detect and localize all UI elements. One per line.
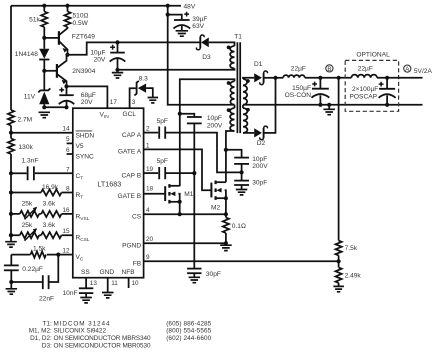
svg-text:2: 2 — [146, 126, 150, 133]
svg-text:M1, M2:: M1, M2: — [29, 328, 52, 335]
svg-text:M2: M2 — [211, 204, 220, 211]
svg-text:3: 3 — [132, 99, 136, 106]
wire M1 source to CS — [179, 202, 181, 214]
node M2 source CS — [224, 212, 228, 216]
ground 10nF — [80, 298, 92, 303]
node 10uF bottom — [115, 68, 119, 72]
potentiometer 25k (RVSL) — [11, 211, 41, 217]
node 0.22uF bottom — [9, 280, 13, 284]
pin stub NFB — [128, 278, 130, 288]
wire M2 source to CS — [225, 198, 227, 214]
svg-text:8.3: 8.3 — [139, 75, 148, 82]
capacitor C 10uF 20V — [110, 42, 126, 69]
wire B node to 7.5k — [338, 78, 340, 241]
svg-text:39µF: 39µF — [192, 16, 207, 23]
phase dot aux — [227, 46, 231, 50]
node FZT emitter/2N3904 collector — [65, 53, 69, 57]
svg-text:5pF: 5pF — [157, 118, 168, 125]
svg-text:FB: FB — [133, 261, 142, 268]
svg-text:ON SEMICONDUCTOR MBR0530: ON SEMICONDUCTOR MBR0530 — [54, 342, 151, 349]
trimmer arrow — [25, 229, 37, 241]
wire 0.22uF bottom stub — [10, 282, 12, 289]
svg-text:D3:: D3: — [42, 342, 52, 349]
trimmer arrow — [25, 207, 37, 219]
pin stub SYNC — [67, 153, 73, 155]
wire GATE A to M2 gate — [144, 149, 212, 190]
phase dot primary B — [227, 81, 231, 85]
resistor R 0.1ohm — [223, 214, 229, 243]
phase dot primary C — [227, 108, 231, 112]
svg-text:GATE B: GATE B — [117, 193, 141, 200]
transistor Q FZT649 — [59, 27, 68, 55]
svg-text:9: 9 — [146, 254, 150, 261]
junction 68uF bottom — [64, 105, 68, 109]
svg-text:15: 15 — [62, 228, 70, 235]
node RVSL rail — [9, 212, 13, 216]
svg-text:M1: M1 — [184, 191, 193, 198]
svg-text:25k: 25k — [22, 222, 33, 229]
svg-text:3.6k: 3.6k — [43, 222, 56, 229]
ground 30pF a — [189, 277, 201, 282]
transistor M2 (MOSFET) — [211, 181, 228, 201]
svg-text:T1: T1 — [234, 34, 242, 41]
ground PGND — [220, 245, 232, 250]
svg-text:19: 19 — [146, 166, 154, 173]
op-amp U1 LT1683 box — [73, 108, 144, 278]
junction rail/51k — [42, 4, 46, 8]
wire primary C top lead — [234, 105, 236, 108]
resistor R 51k — [41, 6, 47, 38]
capacitor C 68uF 20V — [59, 86, 74, 107]
node RCSL rail — [9, 233, 13, 237]
ground 39uF — [176, 31, 189, 36]
wire output return — [243, 104, 423, 106]
node poscap top — [385, 76, 389, 80]
diode D 1N4148 — [39, 38, 49, 71]
wire CAP B pin19 — [144, 172, 159, 174]
svg-text:SILICONIX Si9422: SILICONIX Si9422 — [54, 328, 107, 335]
capacitor C 30pF (B-side) — [234, 172, 249, 189]
node M1 source CS — [178, 212, 182, 216]
pin name SHDN — [76, 131, 95, 140]
svg-text:16: 16 — [62, 207, 70, 214]
plus 68uF — [59, 88, 64, 93]
pin stub SS — [85, 278, 87, 289]
capacitor C 0.22uF — [4, 255, 19, 282]
phase dot secondary bottom — [246, 108, 250, 112]
svg-text:3.6k: 3.6k — [43, 201, 56, 208]
capacitor C 22nF — [11, 255, 58, 290]
svg-text:22nF: 22nF — [39, 296, 54, 303]
node 150uF bottom — [318, 103, 322, 107]
node capB junction — [192, 171, 196, 175]
diode D2 schottky — [254, 126, 267, 140]
capacitor C 39uF 63V — [168, 15, 190, 31]
svg-text:7: 7 — [66, 166, 70, 173]
pin stub GND — [107, 278, 109, 293]
resistor R 3.6k (RVSL) — [41, 211, 73, 217]
wire L1 to B node — [305, 77, 352, 79]
node capA junction — [240, 170, 244, 174]
svg-text:D1: D1 — [254, 61, 263, 68]
capacitor C 30pF (A-side bottom) — [187, 269, 201, 278]
svg-text:5V/2A: 5V/2A — [414, 68, 433, 75]
svg-text:30pF: 30pF — [252, 180, 267, 187]
node B circle — [326, 65, 333, 73]
svg-text:5pF: 5pF — [157, 158, 168, 165]
svg-text:CS: CS — [132, 213, 142, 220]
transformer T1 secondary bottom — [243, 108, 247, 133]
wire VIN to pin17 — [67, 86, 108, 108]
svg-text:10pF: 10pF — [252, 156, 267, 163]
svg-text:2×100µF: 2×100µF — [352, 86, 378, 93]
svg-text:OS-CON: OS-CON — [285, 92, 312, 99]
wire zener to 68uF bottom — [44, 106, 66, 108]
junction rail/510 — [65, 4, 69, 8]
plus 10uF — [110, 45, 115, 50]
resistor R 2.7M — [8, 110, 14, 133]
capacitor C 5pF (B) — [159, 167, 165, 179]
svg-text:20V: 20V — [94, 57, 106, 64]
svg-text:510Ω: 510Ω — [73, 13, 89, 20]
resistor R 510ohm — [64, 6, 70, 28]
svg-text:8: 8 — [66, 186, 70, 193]
svg-text:GND: GND — [100, 269, 115, 276]
svg-text:SHDN: SHDN — [76, 133, 95, 140]
svg-text:CAP B: CAP B — [122, 172, 142, 179]
wire capB junction to 30pF — [193, 173, 195, 269]
wire FB — [144, 260, 339, 262]
resistor R 130k — [8, 133, 14, 174]
wire left rail — [10, 6, 12, 110]
svg-text:OPTIONAL: OPTIONAL — [356, 52, 390, 59]
wire GATE B to M1 gate — [144, 193, 166, 195]
node rectifier out — [273, 76, 277, 80]
transformer T1 core — [237, 42, 240, 133]
ground zener — [39, 112, 51, 117]
resistor R 2.49k — [336, 261, 342, 286]
ground 2.49k — [333, 286, 344, 291]
svg-text:30pF: 30pF — [206, 271, 221, 278]
node 2N3904 base — [42, 69, 46, 73]
svg-text:51k: 51k — [29, 16, 40, 23]
OPTIONAL dashed box — [345, 60, 398, 111]
ground 10uF — [112, 73, 123, 78]
svg-text:(605) 886-4285: (605) 886-4285 — [166, 320, 211, 327]
phase dot secondary top — [246, 79, 250, 83]
wire return ground stub — [328, 105, 330, 110]
wire GCL pin3 — [130, 88, 136, 108]
svg-text:D3: D3 — [202, 54, 211, 61]
plus 39uF — [184, 12, 189, 17]
wire top 48V rail — [11, 5, 181, 7]
svg-text:16.9k: 16.9k — [42, 184, 59, 191]
transformer T1 primary C — [230, 108, 234, 131]
transformer T1 secondary top — [243, 79, 247, 105]
svg-text:150µF: 150µF — [292, 85, 311, 92]
capacitor C 150uF OS-CON — [312, 78, 330, 105]
svg-text:D2: D2 — [257, 140, 266, 147]
svg-text:17: 17 — [110, 99, 118, 106]
svg-text:18: 18 — [146, 186, 154, 193]
svg-text:20V: 20V — [81, 99, 93, 106]
svg-text:13: 13 — [90, 280, 98, 287]
wire VC — [58, 254, 73, 256]
svg-text:GCL: GCL — [123, 111, 137, 118]
svg-text:22µF: 22µF — [291, 66, 306, 73]
inductor L 22uF (1) — [283, 75, 305, 78]
node zener anode — [42, 105, 46, 109]
svg-text:MIDCOM 31244: MIDCOM 31244 — [54, 320, 110, 327]
plus 150uF — [312, 82, 317, 87]
svg-text:14: 14 — [62, 126, 70, 133]
wire PGND — [144, 242, 226, 244]
node SHDN divider — [9, 131, 13, 135]
svg-text:(602) 244-6600: (602) 244-6600 — [166, 335, 211, 342]
wire secondary center join — [242, 105, 244, 108]
transformer T1 primary B — [230, 81, 234, 104]
svg-text:GATE A: GATE A — [118, 149, 142, 156]
node 10uF top — [115, 40, 119, 44]
svg-text:(800) 554-5565: (800) 554-5565 — [166, 328, 211, 335]
svg-text:CAP A: CAP A — [122, 132, 142, 139]
node 0.1ohm bottom PGND — [224, 241, 228, 245]
node fb tap — [337, 76, 341, 80]
svg-text:PGND: PGND — [122, 242, 141, 249]
wire CAP B to junction — [165, 172, 194, 174]
resistor R 1.5k — [11, 252, 58, 258]
svg-text:20: 20 — [146, 236, 154, 243]
svg-text:25k: 25k — [22, 201, 33, 208]
ground left rail — [5, 242, 17, 247]
svg-text:0.1Ω: 0.1Ω — [232, 223, 246, 230]
svg-text:130k: 130k — [19, 144, 34, 151]
node FB divider — [337, 259, 341, 263]
node CT rail — [9, 171, 13, 175]
svg-text:63V: 63V — [192, 23, 204, 30]
svg-text:200V: 200V — [252, 163, 268, 170]
wire 48V feed to primary center — [168, 6, 235, 105]
wire M2 drain — [225, 150, 227, 182]
zener diode 8.3 — [134, 81, 152, 98]
zener diode 11V — [38, 71, 50, 108]
wire RT + resistor 16.9k — [11, 189, 73, 195]
node left rail bottom — [9, 233, 13, 237]
ground 8.3 zener — [148, 98, 159, 103]
node VC junction — [56, 253, 60, 257]
svg-text:LT1683: LT1683 — [97, 179, 121, 188]
svg-text:NFB: NFB — [122, 269, 136, 276]
transistor M1 (MOSFET) — [165, 184, 182, 204]
node 10pF1 tap — [178, 112, 182, 116]
wire secondary bottom to D2 — [243, 132, 254, 134]
svg-text:1N4148: 1N4148 — [15, 51, 38, 58]
svg-text:D1, D2:: D1, D2: — [30, 335, 52, 342]
svg-text:2.49k: 2.49k — [345, 273, 362, 280]
ground 30pF b — [236, 190, 248, 195]
svg-text:0.5W: 0.5W — [73, 20, 89, 27]
svg-text:12: 12 — [62, 248, 70, 255]
wire CS — [144, 213, 226, 215]
svg-text:48V: 48V — [184, 3, 196, 10]
svg-text:FZT649: FZT649 — [72, 33, 95, 40]
svg-text:ON SEMICONDUCTOR MBRS340: ON SEMICONDUCTOR MBRS340 — [54, 335, 151, 342]
svg-text:T1:: T1: — [43, 320, 52, 327]
svg-text:4: 4 — [146, 207, 150, 214]
capacitor C 10pF 200V (A-side) — [180, 114, 202, 173]
node base FZT649 — [42, 36, 46, 40]
ground output — [323, 109, 335, 114]
capacitor C 2x100uF POSCAP — [379, 78, 396, 105]
svg-text:10: 10 — [132, 280, 140, 287]
resistor R 3.6k (RCSL) — [41, 232, 73, 238]
node A circle — [404, 65, 411, 73]
node M2 drain tap — [224, 148, 228, 152]
diode D3 schottky — [196, 35, 208, 50]
node poscap bottom — [385, 103, 389, 107]
junction rail/feed — [166, 4, 170, 8]
svg-text:POSCAP: POSCAP — [350, 93, 378, 100]
capacitor C 10pF 200V (B-side) — [226, 150, 249, 173]
svg-text:11: 11 — [111, 280, 118, 287]
potentiometer 25k (RCSL) — [11, 232, 41, 238]
diode D1 schottky — [254, 71, 267, 85]
wire SHDN — [11, 132, 73, 134]
ground GND pin — [102, 293, 114, 298]
svg-text:200V: 200V — [207, 123, 223, 130]
svg-text:10µF: 10µF — [90, 49, 105, 56]
transformer T1 aux winding — [230, 46, 234, 68]
svg-text:5: 5 — [66, 136, 70, 143]
svg-text:10nF: 10nF — [63, 290, 78, 297]
wire D3 anode to winding A top — [209, 42, 235, 46]
wire FZT649 base — [44, 37, 59, 39]
node RT rail — [9, 190, 13, 194]
node 39uF tap — [166, 13, 170, 17]
svg-text:SYNC: SYNC — [76, 154, 95, 161]
svg-text:6: 6 — [66, 147, 70, 154]
transistor Q 2N3904 — [57, 55, 67, 87]
wire CAP A pin2 — [144, 132, 159, 134]
svg-text:22µF: 22µF — [358, 66, 373, 73]
svg-text:SS: SS — [81, 269, 90, 276]
svg-text:1: 1 — [146, 142, 150, 149]
node 150uF top — [318, 76, 322, 80]
node return ground — [327, 103, 331, 107]
svg-text:1.5k: 1.5k — [33, 245, 46, 252]
resistor R 7.5k — [336, 241, 342, 262]
wire left rail lower — [10, 173, 12, 241]
wire FZT emitter to aux rail — [68, 42, 201, 54]
ground 0.22uF — [6, 289, 18, 294]
wire winding B top to M1 drain rail — [180, 79, 235, 186]
wire node to L1 — [276, 77, 284, 79]
wire CAP A to junction — [165, 133, 241, 173]
wire L2 to output — [377, 77, 423, 79]
svg-text:10pF: 10pF — [207, 115, 222, 122]
wire winding C bottom to M2 drain — [226, 131, 235, 150]
svg-text:1.3nF: 1.3nF — [22, 157, 39, 164]
capacitor C 5pF (A) — [159, 127, 165, 139]
wire D1 cathode — [264, 77, 276, 79]
plus POSCAP — [379, 82, 384, 87]
svg-text:2.7M: 2.7M — [18, 117, 33, 124]
node 2N3904 emitter VIN — [64, 84, 68, 88]
wire D2 cathode up to node — [264, 78, 276, 133]
svg-text:68µF: 68µF — [81, 92, 96, 99]
capacitor C 10nF — [79, 288, 93, 297]
svg-text:2N3904: 2N3904 — [72, 68, 95, 75]
svg-text:0.22µF: 0.22µF — [22, 266, 43, 273]
inductor L 22uF (2) — [351, 75, 377, 78]
svg-text:11V: 11V — [24, 94, 36, 101]
pin stub V5 — [67, 142, 73, 144]
wire 2N3904 base — [44, 70, 57, 72]
svg-text:7.5k: 7.5k — [345, 245, 358, 252]
wire secondary top to D1 — [243, 78, 254, 79]
svg-text:V5: V5 — [76, 143, 84, 150]
wire 10uF bottom to winding A bottom — [118, 68, 235, 69]
svg-text:B: B — [327, 66, 331, 73]
capacitor C 1.3nF — [11, 166, 73, 180]
